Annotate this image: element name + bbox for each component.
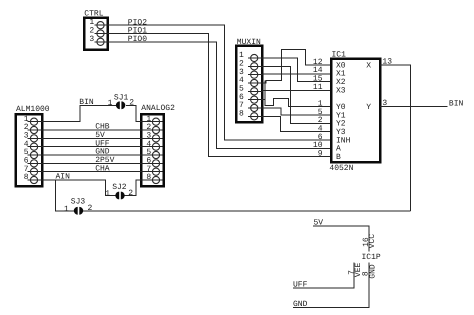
wire MUXIN pin 2 stub — [248, 65, 263, 67]
svg-text:X: X — [366, 61, 371, 70]
svg-text:9: 9 — [318, 150, 323, 159]
wire IC1 Y output net BIN — [380, 106, 448, 108]
wire ANALOG2 pin 5 stub — [141, 154, 162, 156]
wire CTRL pin 2 stub — [95, 33, 109, 35]
pin circle MUXIN 7 — [251, 104, 258, 111]
pin circle MUXIN 4 — [251, 79, 258, 86]
svg-text:Y: Y — [366, 103, 371, 112]
pin circle ALM1000 7 — [30, 168, 37, 175]
wire net GND — [42, 154, 141, 156]
op-amp IC1 body — [331, 59, 380, 162]
svg-text:BIN: BIN — [79, 98, 94, 107]
svg-text:IC1P: IC1P — [362, 253, 381, 262]
connector ALM1000 — [16, 114, 43, 186]
pin circle MUXIN 3 — [251, 71, 258, 78]
wire net PIO2 — [108, 25, 331, 140]
wire ANALOG2 pin 7 stub — [141, 171, 162, 173]
pin circle MUXIN 1 — [251, 54, 258, 61]
pin circle ANALOG2 4 — [152, 143, 159, 150]
wire MUXIN8 to IC1 Y3 — [262, 116, 331, 131]
wire MUXIN5 to IC1 X3 — [262, 90, 331, 92]
wire net PIO0 — [108, 42, 331, 149]
pin circle CTRL 2 — [97, 30, 104, 37]
wire net CHB — [42, 129, 141, 131]
svg-text:AIN: AIN — [56, 173, 71, 182]
svg-text:CHA: CHA — [95, 164, 110, 173]
jumper SJ1 — [116, 101, 120, 109]
svg-text:3: 3 — [89, 35, 94, 44]
wire CTRL pin 3 stub — [95, 41, 109, 43]
wire net GND to GND pin8 — [293, 263, 369, 308]
wire net 5V — [42, 137, 141, 139]
wire net BIN left segment — [42, 105, 116, 121]
wire ALM1000 pin 3 stub — [28, 137, 43, 139]
wire net PIO1 — [108, 34, 331, 157]
svg-text:SJ1: SJ1 — [114, 94, 129, 103]
pin circle ALM1000 6 — [30, 160, 37, 167]
pin circle ANALOG2 1 — [152, 118, 159, 125]
wire MUXIN1 to IC1 X2 — [262, 58, 331, 82]
wire ALM1000 pin 2 stub — [28, 129, 43, 131]
wire ANALOG2 pin 2 stub — [141, 129, 162, 131]
jumper SJ2 — [115, 192, 119, 200]
svg-text:1: 1 — [105, 189, 110, 198]
wire AIN branch to SJ3 — [55, 180, 74, 211]
svg-text:GND: GND — [369, 264, 378, 279]
wire ANALOG2 pin 3 stub — [141, 137, 162, 139]
pin circle MUXIN 6 — [251, 96, 258, 103]
wire net UFF — [42, 146, 141, 148]
wire MUXIN pin 3 stub — [248, 74, 263, 76]
pin circle ALM1000 5 — [30, 151, 37, 158]
wire SJ3 to IC1 X net — [83, 210, 411, 212]
wire net UFF to VEE pin7 — [293, 263, 354, 288]
wire MUXIN7 to IC1 Y1 — [262, 108, 331, 115]
pin circle ALM1000 2 — [30, 126, 37, 133]
wire MUXIN2 to IC1 Y2 — [262, 66, 331, 123]
svg-text:PIO0: PIO0 — [128, 35, 147, 44]
pin circle ALM1000 8 — [30, 176, 37, 183]
wire IC1 X output to SJ3 net — [380, 65, 411, 211]
pin circle ANALOG2 7 — [152, 168, 159, 175]
pin circle ALM1000 3 — [30, 135, 37, 142]
svg-text:8: 8 — [239, 109, 244, 118]
connector ANALOG2 — [141, 114, 164, 186]
pin circle ANALOG2 2 — [152, 126, 159, 133]
wire ANALOG2 pin 1 stub — [141, 121, 162, 123]
svg-text:11: 11 — [313, 83, 323, 92]
pin circle ANALOG2 6 — [152, 160, 159, 167]
wire MUXIN pin 1 stub — [248, 57, 263, 59]
svg-text:X3: X3 — [336, 86, 346, 95]
wire ALM1000 pin 4 stub — [28, 146, 43, 148]
wire MUXIN4 to IC1 X0 — [262, 50, 331, 83]
wire ANALOG2 pin 6 stub — [141, 162, 162, 164]
svg-text:SJ2: SJ2 — [112, 183, 127, 192]
pin circle MUXIN 8 — [251, 113, 258, 120]
wire CTRL pin 1 stub — [95, 24, 109, 26]
wire ALM1000 pin 7 stub — [28, 171, 43, 173]
wire ALM1000 pin 5 stub — [28, 154, 43, 156]
pin circle ALM1000 1 — [30, 118, 37, 125]
wire MUXIN pin 4 stub — [248, 82, 263, 84]
pin circle MUXIN 2 — [251, 63, 258, 70]
wire SJ2 to ANALOG2 pin8 — [124, 180, 141, 195]
wire net AIN to SJ2 — [42, 180, 115, 195]
svg-text:2: 2 — [128, 189, 133, 198]
pin circle CTRL 3 — [97, 38, 104, 45]
wire ALM1000 pin 8 stub — [28, 179, 43, 181]
svg-text:1: 1 — [108, 99, 113, 108]
wire ANALOG2 pin 8 stub — [141, 179, 162, 181]
svg-text:B: B — [336, 153, 341, 162]
wire net 5V to VCC pin16 — [313, 226, 369, 252]
wire MUXIN pin 7 stub — [248, 107, 263, 109]
connector MUXIN — [236, 46, 262, 122]
svg-text:2: 2 — [129, 99, 134, 108]
connector CTRL — [84, 18, 108, 50]
pin circle ANALOG2 5 — [152, 151, 159, 158]
wire MUXIN pin 6 stub — [248, 99, 263, 101]
svg-text:ANALOG2: ANALOG2 — [141, 104, 175, 113]
svg-text:VCC: VCC — [368, 234, 377, 249]
svg-text:8: 8 — [24, 173, 29, 182]
wire ALM1000 pin 6 stub — [28, 162, 43, 164]
svg-text:1: 1 — [64, 205, 69, 214]
pin circle MUXIN 5 — [251, 88, 258, 95]
wire net CHA — [42, 171, 141, 173]
wire MUXIN3 to IC1 X1 — [262, 73, 331, 75]
pin circle ALM1000 4 — [30, 143, 37, 150]
pin circle CTRL 1 — [97, 22, 104, 29]
wire ALM1000 pin 1 stub — [28, 121, 43, 123]
pin circle ANALOG2 3 — [152, 135, 159, 142]
pin circle ANALOG2 8 — [152, 176, 159, 183]
wire MUXIN pin 8 stub — [248, 115, 263, 117]
wire net BIN SJ1 to ANALOG2 — [126, 105, 141, 121]
jumper SJ3 — [74, 207, 78, 215]
wire net 2P5V — [42, 162, 141, 164]
svg-text:8: 8 — [146, 173, 151, 182]
wire MUXIN pin 5 stub — [248, 90, 263, 92]
svg-text:SJ3: SJ3 — [71, 198, 86, 207]
svg-text:BIN: BIN — [449, 99, 464, 108]
wire MUXIN6 to IC1 Y0 — [262, 81, 331, 107]
wire ANALOG2 pin 4 stub — [141, 146, 162, 148]
svg-text:4052N: 4052N — [329, 164, 353, 173]
svg-text:2: 2 — [88, 204, 93, 213]
